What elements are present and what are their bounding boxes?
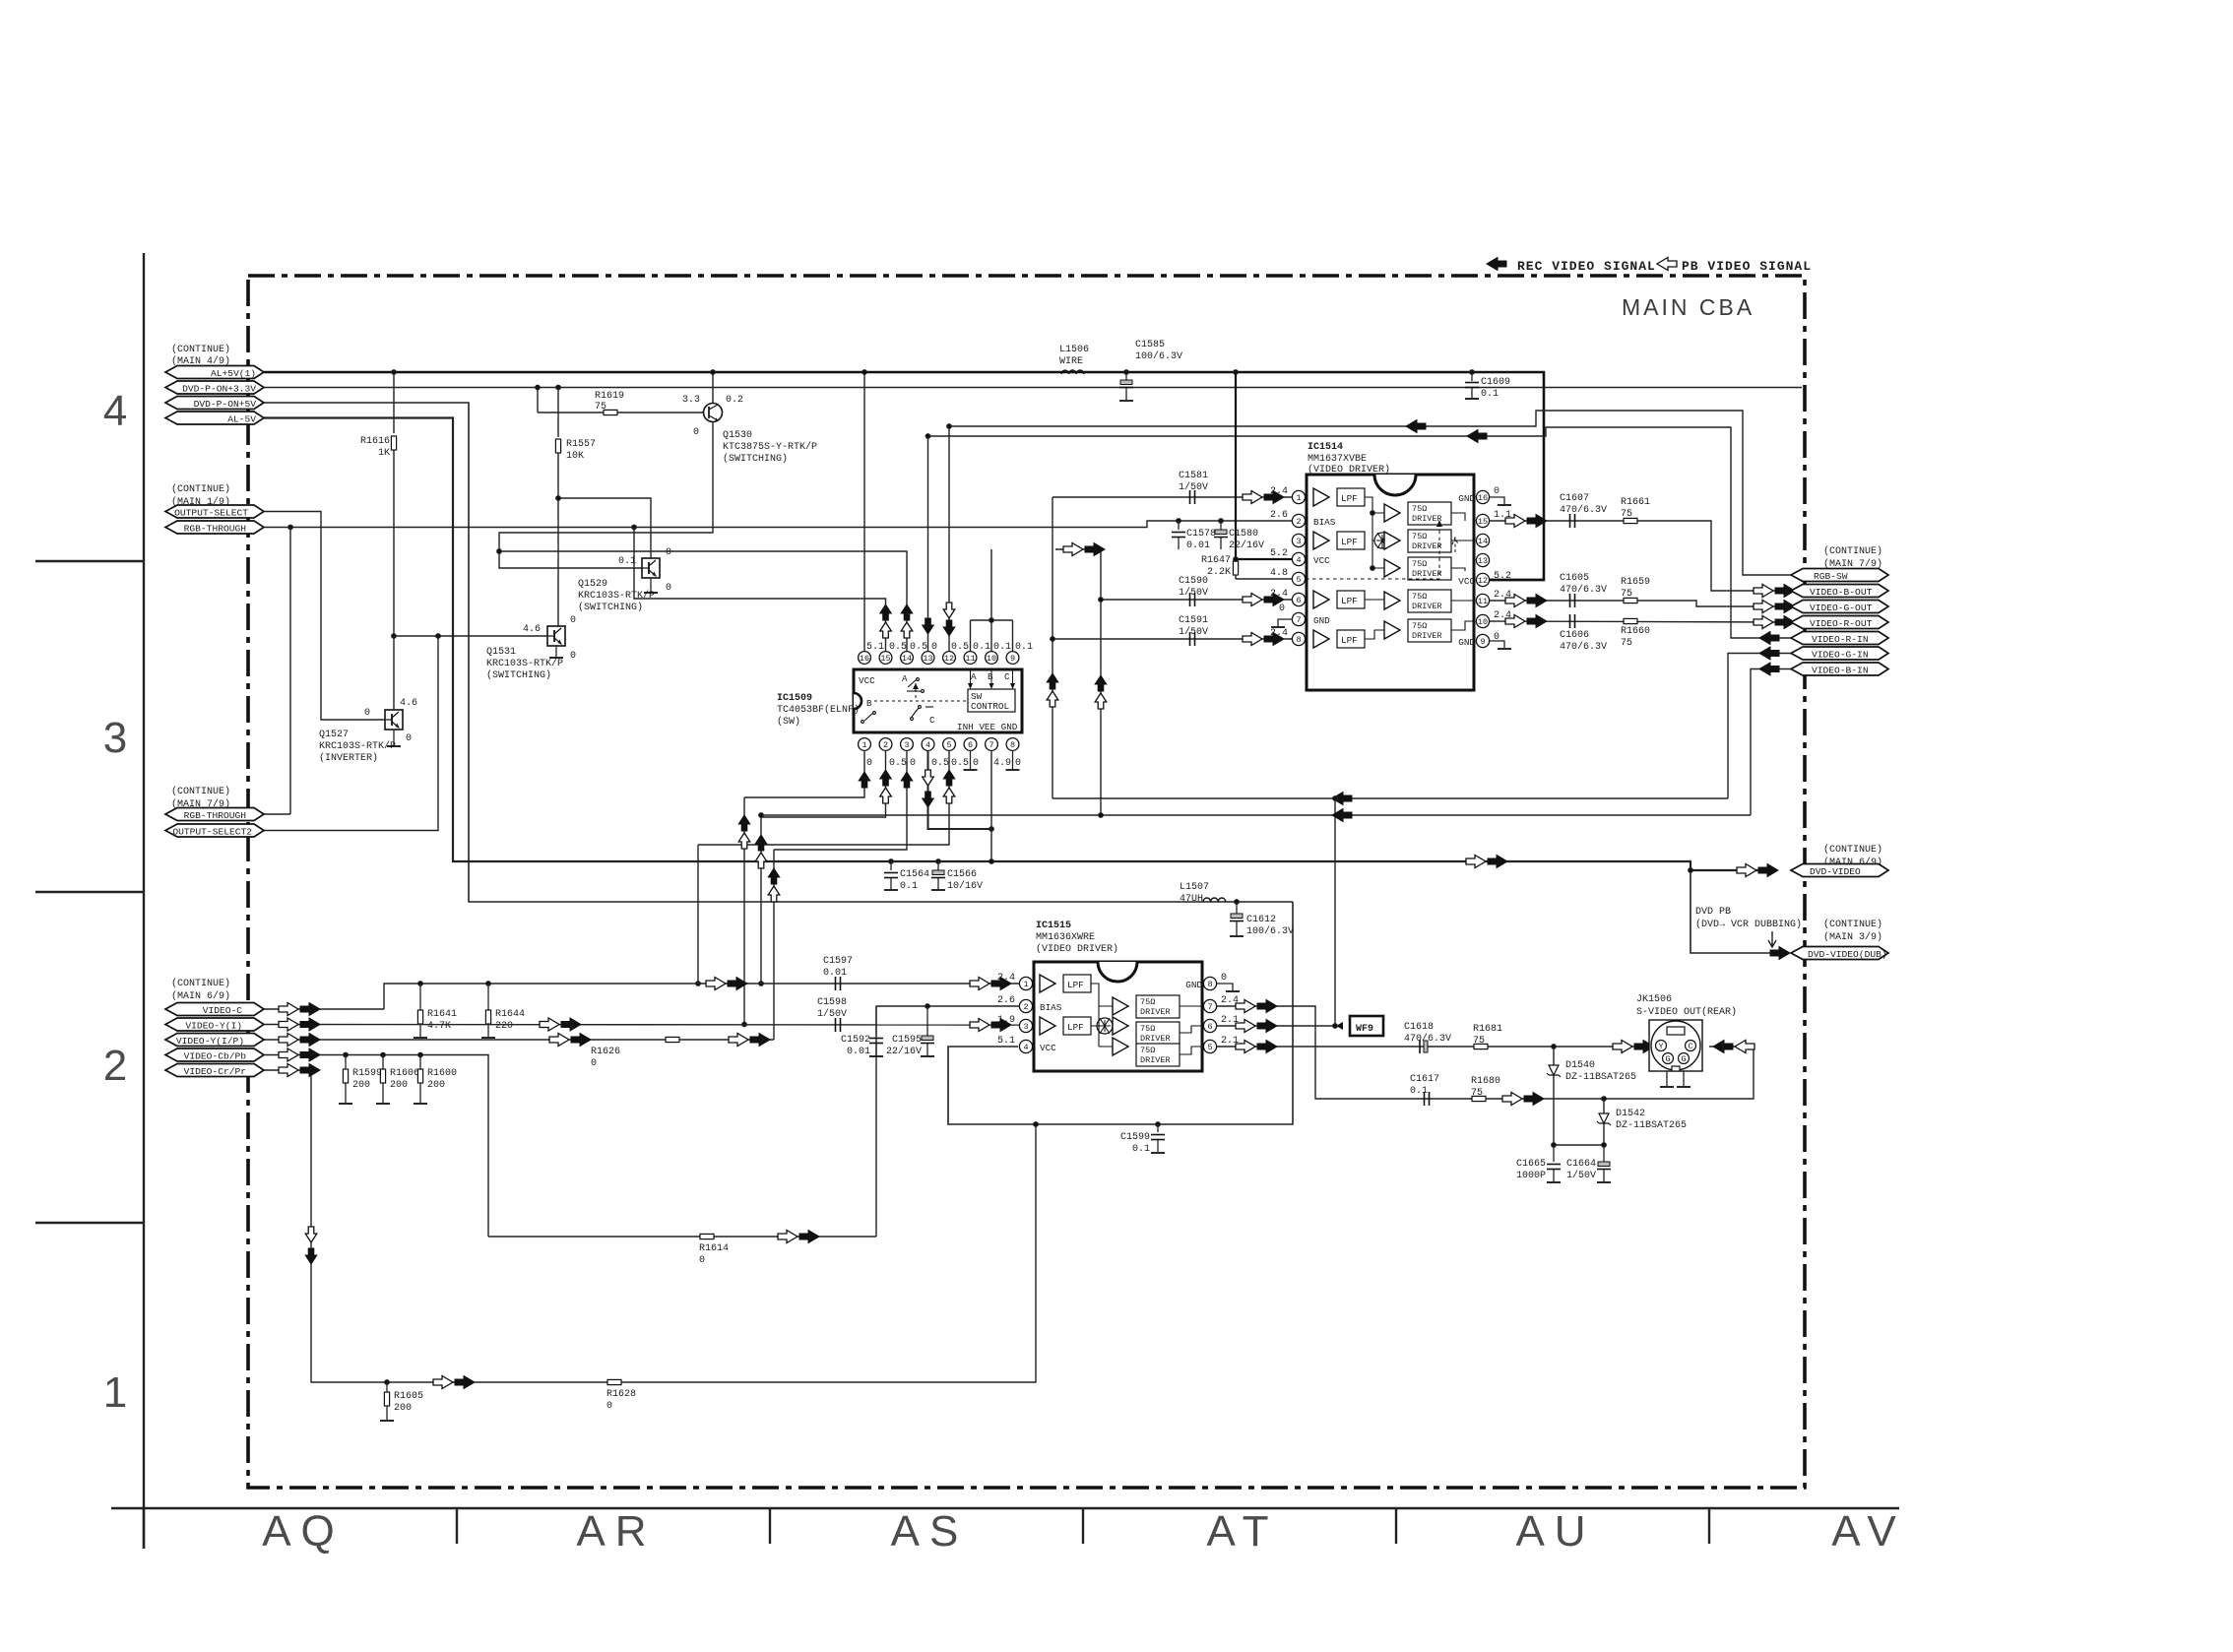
capacitor C1592 xyxy=(875,1006,877,1036)
capacitor C1585 xyxy=(1124,370,1129,375)
svg-text:0: 0 xyxy=(406,733,412,744)
svg-text:R1599: R1599 xyxy=(352,1068,382,1079)
wire pin12 xyxy=(948,426,950,652)
right pin voltages xyxy=(1494,486,1511,643)
svg-text:0.5: 0.5 xyxy=(910,642,927,653)
LPF pin1 xyxy=(1063,975,1091,992)
svg-text:BIAS: BIAS xyxy=(1313,517,1336,528)
svg-text:10: 10 xyxy=(987,654,996,664)
svg-text:DVD-P-ON+3.3V: DVD-P-ON+3.3V xyxy=(182,384,256,395)
svg-text:DVD PB: DVD PB xyxy=(1695,907,1731,918)
amp pin6 xyxy=(1313,591,1329,608)
flag OUTPUT-SELECT2 xyxy=(165,824,264,837)
svg-text:8: 8 xyxy=(1207,980,1212,989)
svg-text:DVD-VIDEO: DVD-VIDEO xyxy=(1810,866,1861,877)
wire pin5 xyxy=(1236,578,1292,580)
wire control feed xyxy=(990,549,992,620)
cap rail xyxy=(1554,1144,1604,1146)
wire pin5 to Y xyxy=(1217,1046,1655,1048)
svg-text:DVD-VIDEO(DUB): DVD-VIDEO(DUB) xyxy=(1808,949,1887,960)
header CONTINUE MAIN 6/9 (right) xyxy=(1823,844,1882,868)
amp pin1 xyxy=(1040,975,1055,992)
dashed feedback xyxy=(1306,521,1439,579)
amp pin3 xyxy=(1040,1017,1055,1035)
svg-text:75: 75 xyxy=(1621,509,1632,520)
svg-text:11: 11 xyxy=(965,654,975,664)
pin circles top row 16..9 xyxy=(859,652,1019,665)
svg-text:75Ω: 75Ω xyxy=(1140,997,1155,1007)
svg-text:0.5: 0.5 xyxy=(889,642,907,653)
capacitor C1617 xyxy=(1425,1092,1430,1106)
svg-text:10K: 10K xyxy=(566,451,584,462)
junction DVD-VIDEO branch xyxy=(1689,868,1693,873)
svg-text:VCC: VCC xyxy=(1040,1043,1056,1053)
svg-text:VIDEO-G-IN: VIDEO-G-IN xyxy=(1812,650,1869,661)
wire Q1530 collector xyxy=(712,372,714,403)
svg-text:4.6: 4.6 xyxy=(400,698,417,709)
svg-text:3: 3 xyxy=(904,740,909,750)
driver amp 13 xyxy=(1384,559,1400,577)
svg-text:C1605: C1605 xyxy=(1560,573,1589,584)
svg-text:DVD-P-ON+5V: DVD-P-ON+5V xyxy=(194,399,257,410)
wire pin5 down xyxy=(698,750,949,845)
header CONTINUE MAIN 6/9 xyxy=(171,978,230,1002)
svg-text:G: G xyxy=(1681,1054,1686,1064)
svg-text:(CONTINUE): (CONTINUE) xyxy=(171,786,230,797)
driver amp 6 xyxy=(1113,1017,1128,1035)
svg-text:75Ω: 75Ω xyxy=(1140,1046,1155,1055)
resistor R1680 xyxy=(1472,1096,1486,1101)
svg-text:AQ: AQ xyxy=(262,1507,345,1556)
down arrow to DUB flag xyxy=(1768,931,1776,947)
svg-text:1/50V: 1/50V xyxy=(1179,626,1208,638)
svg-text:VIDEO-Cb/Pb: VIDEO-Cb/Pb xyxy=(184,1051,247,1062)
amp pin1 xyxy=(1313,488,1329,506)
driver amp 15 xyxy=(1384,504,1400,522)
svg-text:A: A xyxy=(902,673,908,684)
svg-text:KRC103S-RTK/P: KRC103S-RTK/P xyxy=(486,658,563,669)
svg-text:0.5: 0.5 xyxy=(951,642,969,653)
svg-text:DZ-11BSAT265: DZ-11BSAT265 xyxy=(1565,1072,1636,1083)
bottom pin voltages xyxy=(866,758,1021,769)
svg-text:C1564: C1564 xyxy=(900,869,929,880)
svg-text:LPF: LPF xyxy=(1341,596,1358,606)
flag VIDEO-B-OUT xyxy=(1791,585,1888,598)
svg-text:C1597: C1597 xyxy=(823,956,853,967)
svg-text:B: B xyxy=(988,671,993,682)
wire pin7 INH down xyxy=(990,750,992,861)
svg-text:PB VIDEO SIGNAL: PB VIDEO SIGNAL xyxy=(1682,259,1812,274)
flag VIDEO-R-IN xyxy=(1791,632,1888,645)
svg-text:1K: 1K xyxy=(378,448,390,459)
svg-text:KRC103S-RTK/P: KRC103S-RTK/P xyxy=(578,590,655,602)
svg-text:22/16V: 22/16V xyxy=(886,1046,922,1057)
svg-text:R1644: R1644 xyxy=(495,1009,525,1020)
svg-text:0: 0 xyxy=(606,1401,612,1412)
svg-text:0.01: 0.01 xyxy=(1186,540,1210,551)
svg-text:0: 0 xyxy=(666,583,671,594)
svg-text:9: 9 xyxy=(1480,637,1485,647)
svg-text:200: 200 xyxy=(394,1403,412,1414)
svg-text:0: 0 xyxy=(931,642,937,653)
svg-text:C1606: C1606 xyxy=(1560,630,1589,641)
wire pin12 VCC from +5V corner xyxy=(1490,579,1544,582)
svg-text:C1598: C1598 xyxy=(817,997,847,1008)
JK1506 ground legs xyxy=(1666,1071,1668,1086)
wire ABC control bus xyxy=(971,619,1013,621)
capacitor C1612 xyxy=(1235,900,1240,905)
svg-text:D1540: D1540 xyxy=(1565,1060,1595,1071)
IC1509 labels xyxy=(777,693,860,728)
svg-text:0.1: 0.1 xyxy=(993,642,1011,653)
svg-text:1: 1 xyxy=(1296,493,1301,503)
IC1514 body xyxy=(1307,475,1474,690)
svg-text:C1599: C1599 xyxy=(1120,1132,1150,1143)
flag VIDEO-Y(I) xyxy=(165,1018,264,1031)
svg-text:L1507: L1507 xyxy=(1180,882,1209,893)
wire C pin to right xyxy=(1709,1046,1754,1048)
svg-text:0: 0 xyxy=(1221,973,1227,984)
svg-text:AT: AT xyxy=(1207,1507,1279,1556)
left pin circles 1-8 xyxy=(1292,490,1305,645)
driver amp 10 xyxy=(1384,621,1400,639)
svg-text:LPF: LPF xyxy=(1341,635,1358,646)
header CONTINUE MAIN 3/9 (right) xyxy=(1823,919,1882,943)
svg-text:11: 11 xyxy=(1478,597,1488,606)
resistor R1600 xyxy=(418,1052,423,1057)
ABC labels inside xyxy=(971,671,1010,682)
svg-text:0.1: 0.1 xyxy=(900,881,918,892)
svg-text:L1506: L1506 xyxy=(1059,345,1089,355)
pin16 ground xyxy=(1490,497,1504,504)
svg-text:BIAS: BIAS xyxy=(1040,1002,1062,1013)
svg-text:RGB-THROUGH: RGB-THROUGH xyxy=(184,810,246,821)
legend PB VIDEO SIGNAL xyxy=(1657,258,1677,271)
internal wires bottom half xyxy=(1365,513,1474,639)
svg-text:(INVERTER): (INVERTER) xyxy=(319,752,378,764)
svg-text:8: 8 xyxy=(1010,740,1015,750)
svg-text:15: 15 xyxy=(1478,517,1488,527)
row tick 3/2 xyxy=(35,891,144,893)
svg-text:0.5: 0.5 xyxy=(889,758,907,769)
flag VIDEO-G-IN xyxy=(1791,647,1888,660)
svg-text:Q1531: Q1531 xyxy=(486,647,516,658)
svg-text:CONTROL: CONTROL xyxy=(971,701,1009,712)
svg-text:C: C xyxy=(1688,1042,1692,1051)
svg-text:75Ω: 75Ω xyxy=(1412,621,1427,631)
svg-text:75Ω: 75Ω xyxy=(1412,559,1427,569)
arrows on DVD-VIDEO rail xyxy=(1466,856,1486,868)
svg-text:VIDEO-Cr/Pr: VIDEO-Cr/Pr xyxy=(184,1066,246,1077)
flag OUTPUT-SELECT xyxy=(165,505,264,518)
svg-text:(CONTINUE): (CONTINUE) xyxy=(171,344,230,355)
svg-text:(VIDEO DRIVER): (VIDEO DRIVER) xyxy=(1308,464,1390,476)
svg-text:VIDEO-B-IN: VIDEO-B-IN xyxy=(1812,666,1869,676)
svg-text:0.01: 0.01 xyxy=(823,968,847,979)
svg-text:R1647: R1647 xyxy=(1201,555,1231,566)
svg-text:VIDEO-Y(I/P): VIDEO-Y(I/P) xyxy=(176,1036,244,1047)
svg-text:75Ω: 75Ω xyxy=(1412,532,1427,541)
resistor R1619 xyxy=(604,410,617,414)
svg-text:R1628: R1628 xyxy=(606,1389,636,1400)
svg-text:470/6.3V: 470/6.3V xyxy=(1560,504,1607,516)
vertical feed B channel xyxy=(1052,497,1053,798)
75ohm driver box 10 xyxy=(1408,619,1451,642)
svg-text:5: 5 xyxy=(1207,1043,1212,1052)
svg-text:2.6: 2.6 xyxy=(997,995,1015,1006)
svg-text:DZ-11BSAT265: DZ-11BSAT265 xyxy=(1616,1120,1687,1131)
svg-text:TC4053BF(ELNF): TC4053BF(ELNF) xyxy=(777,704,860,716)
svg-text:C1580: C1580 xyxy=(1229,529,1258,540)
IC1515 body xyxy=(1034,962,1202,1071)
flag VIDEO-B-IN xyxy=(1791,663,1888,675)
wire WF9 riser from rail xyxy=(1334,798,1336,1026)
svg-text:DRIVER: DRIVER xyxy=(1140,1034,1171,1044)
resistor R1557 xyxy=(556,385,561,390)
ground Q1529 emitter xyxy=(650,578,652,592)
resistor R1599 xyxy=(344,1052,349,1057)
svg-text:AR: AR xyxy=(576,1507,656,1556)
svg-text:R1557: R1557 xyxy=(566,439,596,450)
wire VIDEO-Cb/Pb xyxy=(264,1055,488,1238)
wire pin6 input xyxy=(1101,599,1292,601)
svg-text:IC1509: IC1509 xyxy=(777,693,812,704)
flag AL+5V(1) xyxy=(165,366,264,379)
svg-text:200: 200 xyxy=(390,1080,408,1091)
wire left mid vertical A xyxy=(743,797,745,1025)
svg-text:LPF: LPF xyxy=(1067,1022,1084,1033)
svg-text:6: 6 xyxy=(968,740,973,750)
resistor R1641 xyxy=(419,984,421,1010)
capacitor C1618 xyxy=(1420,1040,1428,1053)
flag AL-5V xyxy=(165,412,264,424)
svg-text:0: 0 xyxy=(699,1255,705,1266)
bottom axis line xyxy=(111,1507,1899,1509)
svg-text:R1616: R1616 xyxy=(360,436,390,447)
svg-text:5.2: 5.2 xyxy=(1270,548,1288,559)
LPF box pin6 xyxy=(1337,591,1365,608)
svg-text:DRIVER: DRIVER xyxy=(1412,514,1442,524)
svg-text:DRIVER: DRIVER xyxy=(1140,1007,1171,1017)
wire left mid vertical C xyxy=(773,850,775,1040)
wire VCC loop to pin4 xyxy=(948,902,1293,1124)
wire pin8 input xyxy=(1053,638,1292,640)
svg-text:MM1637XVBE: MM1637XVBE xyxy=(1308,454,1367,465)
wire pin8 gnd xyxy=(1012,750,1014,769)
svg-text:0.01: 0.01 xyxy=(847,1047,870,1057)
svg-text:C1609: C1609 xyxy=(1481,377,1510,388)
svg-text:R1680: R1680 xyxy=(1471,1076,1500,1087)
wire G-IN mid rail xyxy=(1053,797,1728,799)
capacitor C1665 xyxy=(1553,1145,1555,1162)
flag VIDEO-G-OUT xyxy=(1791,601,1888,613)
svg-text:DRIVER: DRIVER xyxy=(1412,569,1442,579)
svg-text:OUTPUT-SELECT: OUTPUT-SELECT xyxy=(174,508,248,519)
svg-text:(SWITCHING): (SWITCHING) xyxy=(486,669,551,681)
svg-text:14: 14 xyxy=(1478,537,1488,546)
mixer xyxy=(1097,1018,1113,1034)
svg-text:(MAIN 6/9): (MAIN 6/9) xyxy=(171,990,230,1002)
right pins 8-5 xyxy=(1203,977,1216,1052)
svg-text:470/6.3V: 470/6.3V xyxy=(1404,1033,1451,1045)
amp pin3 xyxy=(1313,532,1329,549)
svg-text:5.1: 5.1 xyxy=(866,642,884,653)
75ohm driver box 11 xyxy=(1408,590,1451,612)
svg-text:3: 3 xyxy=(1023,1022,1028,1032)
vertical feed G channel xyxy=(1100,549,1102,815)
IC1509 body xyxy=(854,669,1022,732)
svg-text:Q1527: Q1527 xyxy=(319,730,349,740)
left voltages xyxy=(997,973,1015,1047)
svg-text:R1681: R1681 xyxy=(1473,1024,1502,1035)
svg-text:VCC: VCC xyxy=(1313,555,1330,566)
wire Q1527 collector xyxy=(393,636,395,710)
svg-text:R1626: R1626 xyxy=(591,1047,620,1057)
black arrow into DVD-VIDEO(DUB) xyxy=(1770,947,1790,960)
svg-text:0: 0 xyxy=(910,758,916,769)
flag VIDEO-Y(I/P) xyxy=(165,1034,264,1047)
driver amp 5 xyxy=(1113,1038,1128,1055)
svg-text:5: 5 xyxy=(946,740,951,750)
svg-text:R1614: R1614 xyxy=(699,1243,729,1254)
svg-text:4.9: 4.9 xyxy=(993,758,1011,769)
wire DVD-P-ON+5V to L1507 rail xyxy=(264,403,1293,902)
svg-text:KRC103S-RTK/P: KRC103S-RTK/P xyxy=(319,740,396,752)
svg-text:INH VEE GND: INH VEE GND xyxy=(957,722,1018,732)
inside labels xyxy=(1313,493,1475,648)
svg-text:2: 2 xyxy=(883,740,888,750)
row tick 4/3 xyxy=(35,560,144,562)
svg-text:(SWITCHING): (SWITCHING) xyxy=(723,453,788,465)
svg-text:R1660: R1660 xyxy=(1621,626,1650,637)
svg-text:(CONTINUE): (CONTINUE) xyxy=(171,978,230,989)
svg-text:2.6: 2.6 xyxy=(1270,510,1288,521)
svg-text:1: 1 xyxy=(103,1368,137,1417)
svg-text:R1641: R1641 xyxy=(427,1009,457,1020)
resistor R1626 xyxy=(666,1037,679,1042)
LPF box pin8 xyxy=(1337,630,1365,648)
svg-text:(SWITCHING): (SWITCHING) xyxy=(578,602,643,613)
flag VIDEO-C xyxy=(165,1003,264,1016)
svg-text:C1585: C1585 xyxy=(1135,340,1165,350)
IC1509 inside text xyxy=(859,675,1018,732)
resistor R1628 xyxy=(607,1379,621,1384)
internal bus xyxy=(1091,984,1113,1047)
wire Q1530 emitter chain xyxy=(499,422,713,568)
svg-text:B: B xyxy=(866,698,872,709)
control arrows into SW CONTROL xyxy=(971,669,1013,686)
svg-text:0: 0 xyxy=(1279,604,1285,614)
svg-text:C1578: C1578 xyxy=(1186,529,1216,540)
svg-text:DRIVER: DRIVER xyxy=(1140,1055,1171,1065)
svg-text:DRIVER: DRIVER xyxy=(1412,541,1442,551)
capacitor C1664 xyxy=(1603,1145,1605,1162)
wire pin2 BIAS feed xyxy=(876,1006,1019,1237)
wire Q1529 collector node xyxy=(558,498,651,558)
pin7 ground xyxy=(1278,619,1293,626)
svg-text:LPF: LPF xyxy=(1341,493,1358,504)
svg-text:16: 16 xyxy=(860,654,869,664)
svg-text:0: 0 xyxy=(591,1058,597,1069)
wire R1614 row xyxy=(488,1236,876,1238)
svg-text:R1600: R1600 xyxy=(427,1068,457,1079)
svg-text:0.1: 0.1 xyxy=(1015,642,1033,653)
header CONTINUE MAIN 1/9 xyxy=(171,483,230,508)
svg-text:6: 6 xyxy=(1296,596,1301,605)
svg-text:C: C xyxy=(929,715,935,726)
wire pin6 gnd xyxy=(970,750,972,769)
ground Q1527 emitter xyxy=(393,730,395,745)
svg-text:470/6.3V: 470/6.3V xyxy=(1560,584,1607,596)
75ohm driver box 5 xyxy=(1136,1044,1180,1066)
svg-text:8: 8 xyxy=(1296,635,1301,645)
svg-text:IC1514: IC1514 xyxy=(1308,442,1343,453)
svg-text:OUTPUT-SELECT2: OUTPUT-SELECT2 xyxy=(172,827,252,838)
ground Q1531 emitter xyxy=(555,646,557,657)
svg-text:12: 12 xyxy=(1478,576,1488,586)
svg-text:1/50V: 1/50V xyxy=(1566,1170,1596,1181)
svg-text:4: 4 xyxy=(1023,1043,1028,1052)
svg-text:C1581: C1581 xyxy=(1179,471,1208,481)
wire pin13 xyxy=(927,436,929,652)
capacitor C1566 xyxy=(936,859,941,864)
LPF box pin1 xyxy=(1337,488,1365,506)
wire pin15 xyxy=(634,528,886,653)
svg-text:R1605: R1605 xyxy=(394,1391,423,1402)
flag RGB-SW xyxy=(1791,569,1888,582)
wire VIDEO-Y(I/P) xyxy=(264,1039,774,1041)
75ohm driver box 7 xyxy=(1136,995,1180,1018)
svg-text:C1592: C1592 xyxy=(841,1035,870,1046)
svg-text:DRIVER: DRIVER xyxy=(1412,602,1442,611)
capacitor C1578 xyxy=(1177,519,1181,524)
svg-text:R1619: R1619 xyxy=(595,391,624,402)
svg-text:1000P: 1000P xyxy=(1516,1171,1546,1181)
svg-text:1/50V: 1/50V xyxy=(817,1008,847,1020)
wire DVD-P-ON+3.3V bus xyxy=(264,387,1802,389)
svg-text:Y: Y xyxy=(1658,1042,1663,1051)
capacitor C1595 xyxy=(925,1004,930,1009)
switch symbols inside xyxy=(861,673,935,726)
svg-text:200: 200 xyxy=(352,1080,370,1091)
svg-text:C1618: C1618 xyxy=(1404,1022,1434,1033)
svg-text:AS: AS xyxy=(891,1507,969,1556)
svg-text:C1665: C1665 xyxy=(1516,1159,1546,1170)
svg-text:GND: GND xyxy=(1185,980,1202,990)
svg-text:13: 13 xyxy=(923,654,932,664)
right pin circles 16-9 xyxy=(1476,490,1489,647)
inductor L1506 xyxy=(1061,370,1084,374)
svg-text:2: 2 xyxy=(1023,1002,1028,1012)
IC1514 labels xyxy=(1308,442,1390,476)
flag DVD-VIDEO(DUB) xyxy=(1791,947,1888,960)
driver amp 14 xyxy=(1384,532,1400,549)
svg-text:C1617: C1617 xyxy=(1410,1074,1439,1085)
wire pin10 output xyxy=(1490,621,1791,622)
svg-text:75Ω: 75Ω xyxy=(1412,504,1427,514)
wire AL-5V to DVD-VIDEO rail xyxy=(264,418,1758,871)
svg-text:13: 13 xyxy=(1478,556,1488,566)
svg-text:AU: AU xyxy=(1515,1507,1595,1556)
svg-text:0: 0 xyxy=(570,651,576,662)
svg-text:1: 1 xyxy=(1023,980,1028,989)
svg-text:75: 75 xyxy=(595,402,606,413)
svg-text:15: 15 xyxy=(880,654,890,664)
svg-text:0.5: 0.5 xyxy=(951,758,969,769)
transistor Q1530 xyxy=(704,404,723,422)
flag DVD-P-ON+3.3V xyxy=(165,381,264,394)
flag VIDEO-Cr/Pr xyxy=(165,1064,264,1077)
